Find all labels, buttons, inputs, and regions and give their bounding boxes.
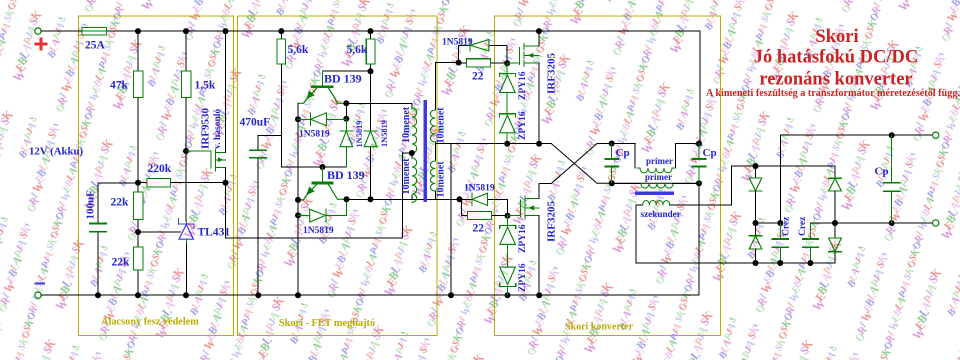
node: lower gate cell input [457, 196, 463, 202]
shunt regulator U2 TL431 [178, 219, 230, 296]
node: diode row upper right [343, 116, 349, 122]
resistor 5,6k (right) [347, 31, 375, 71]
wire: X crossing diag 2 [552, 144, 636, 184]
diode 1N5819 (lower gate) [464, 184, 508, 216]
svg-text:A kimeneti feszültség a transz: A kimeneti feszültség a transzformátor m… [706, 88, 960, 99]
svg-text:10menet: 10menet [435, 107, 446, 144]
capacitor Crez2 [798, 216, 818, 263]
svg-text:5,6k: 5,6k [288, 44, 309, 56]
terminal: output + [933, 132, 939, 138]
svg-text:470uF: 470uF [240, 117, 271, 129]
transistor Q1 IRF9530 (P-MOSFET) [211, 150, 226, 171]
transformer T1 winding W2 (10menet lower left) [401, 153, 417, 202]
svg-text:Jó hatásfokú DC/DC: Jó hatásfokú DC/DC [754, 48, 918, 68]
diode D4 (right bottom) [829, 223, 842, 252]
transformer T1 core [424, 100, 427, 202]
transformer T1 winding W1 (10menet upper left) [401, 103, 417, 153]
svg-text:IRF3205: IRF3205 [546, 201, 558, 242]
terminal: - input [35, 292, 41, 298]
svg-text:IRF3205: IRF3205 [546, 53, 558, 94]
svg-text:Skori: Skori [815, 27, 858, 47]
transformer T2 winding primer (upper) [635, 144, 699, 173]
node: lower emitter [295, 197, 301, 203]
svg-text:12V (Akku): 12V (Akku) [29, 146, 84, 158]
wire: left mid row [756, 222, 781, 224]
box: Alacsony fesz vedelem [79, 16, 234, 336]
svg-text:v. hasonló: v. hasonló [213, 109, 223, 149]
node: upper collector [343, 100, 349, 106]
wire: secondary lower rail [636, 252, 835, 263]
wire: right mid row [810, 222, 932, 224]
resistor 22k (lower) [112, 232, 144, 295]
svg-text:ZPY16: ZPY16 [518, 224, 528, 253]
svg-text:1N5819: 1N5819 [442, 38, 473, 48]
capacitor Cp1 [605, 144, 629, 184]
wire: IRF9530 source down and to FET driver [226, 153, 412, 238]
svg-text:TL431: TL431 [198, 227, 231, 239]
diode D3 (right top) [829, 178, 842, 223]
svg-text:1N5819: 1N5819 [303, 226, 334, 236]
transformer T2 winding szekunder [636, 166, 732, 263]
diode 1N5819 (lower horizontal) [298, 199, 347, 236]
node: Crez1 top [777, 220, 783, 226]
svg-text:10menet: 10menet [401, 158, 412, 195]
node: bottom rail junctions [95, 292, 542, 298]
label: IRF9530 v. hasonlo [200, 108, 224, 149]
svg-text:1N5819: 1N5819 [355, 121, 364, 148]
svg-text:Cp: Cp [616, 147, 630, 159]
node: D2 bottom [753, 260, 759, 266]
svg-text:22: 22 [473, 223, 485, 235]
transistor Q4 IRF3205 (upper) [507, 31, 557, 144]
transformer T1 winding W3 (10menet upper right) [430, 63, 446, 144]
node: Cp1 top [609, 141, 615, 147]
svg-text:47k: 47k [110, 80, 129, 92]
label: - (minus) [36, 283, 45, 285]
resistor 22k (upper) [111, 183, 144, 232]
svg-text:22k: 22k [112, 257, 131, 269]
node: diode row upper left [295, 116, 301, 122]
zener ZPY16 (lower pair top) [500, 216, 528, 253]
zener ZPY16 (upper pair top) [500, 63, 529, 100]
node: base wire of upper BD139 [368, 68, 374, 74]
wire: gate feed IRF9530 [186, 150, 211, 152]
wire: terminal stubs (green) [41, 31, 932, 295]
zener ZPY16 (lower pair bottom) [500, 244, 528, 295]
capacitor Cp2 [693, 144, 717, 184]
svg-text:Alacsony fesz védelem: Alacsony fesz védelem [101, 317, 199, 328]
node: lower base tap [320, 164, 326, 170]
node: upper source on bus [536, 141, 542, 147]
svg-text:primer: primer [645, 172, 672, 182]
svg-text:IRF9530: IRF9530 [200, 108, 212, 149]
wire: TL431 ref [138, 231, 181, 233]
node: source bus junctions [504, 141, 510, 147]
box: Skori - FET meghajto [238, 16, 438, 336]
wire: IRF9530 drain to +12 [225, 31, 227, 152]
resistor 22 (upper gate) [459, 59, 508, 83]
node: collector/diode junction [368, 196, 374, 202]
terminal: + input [35, 28, 41, 34]
diode 1N5819 (upper gate) [442, 38, 507, 64]
svg-text:rezonáns konverter: rezonáns konverter [759, 70, 912, 90]
svg-text:ZPY16: ZPY16 [518, 263, 528, 292]
svg-text:ZPY16: ZPY16 [518, 111, 528, 140]
svg-text:Skori konverter: Skori konverter [565, 322, 634, 333]
node: output cap top [889, 132, 895, 138]
wire: W4 to gate cell [451, 198, 472, 200]
diode 1N5819 (upper horizontal) [298, 113, 346, 140]
resistor 220k [138, 163, 226, 187]
svg-text:10menet: 10menet [435, 161, 446, 198]
node: rect input at D1 [753, 163, 759, 169]
wire: collector to winding W1 top [346, 103, 412, 119]
wire: rectifier input rail [732, 166, 835, 178]
wire: TL431 cathode up to gate node [185, 151, 187, 221]
wire: bottom 0V rail [41, 183, 699, 295]
svg-text:220k: 220k [148, 163, 172, 175]
svg-text:ZPY16: ZPY16 [518, 71, 528, 100]
diode 1N5819 (vertical right) [364, 71, 389, 199]
transistor Q3 BD139 (lower) [299, 167, 365, 200]
svg-text:1,5k: 1,5k [195, 80, 216, 92]
svg-text:Cp: Cp [875, 166, 889, 178]
transformer T1 winding W4 (10menet lower right) [430, 144, 451, 200]
resistor 5,6k (left) [277, 31, 346, 167]
svg-text:100uF: 100uF [85, 190, 97, 220]
svg-text:Crez: Crez [782, 216, 792, 236]
node: left mid row [753, 220, 759, 226]
wire: upper emitter column [297, 103, 299, 295]
node: divider junction / TL431 ref [135, 229, 141, 235]
node: lower diode left [295, 212, 301, 218]
node: lower gate node [505, 213, 511, 219]
svg-text:Crez: Crez [798, 216, 808, 236]
resistor 47k [110, 31, 143, 183]
svg-text:BD 139: BD 139 [324, 72, 362, 86]
node: Cp2 bottom [696, 180, 702, 186]
node: output cap bottom [889, 220, 895, 226]
wire: X crossing diag 1 [552, 144, 700, 184]
wire: W3 top to upper gate cell [435, 62, 458, 64]
capacitor Cp3 (output) [875, 135, 900, 223]
transformer T2 winding primer (lower) [612, 172, 699, 188]
zener ZPY16 (upper pair bottom) [500, 93, 529, 144]
resistor 1,5k [182, 31, 216, 151]
node: +12 / Cp2 top [696, 141, 702, 147]
svg-text:1N5819: 1N5819 [380, 120, 389, 147]
svg-text:10menet: 10menet [401, 106, 412, 143]
terminal: output - [933, 220, 939, 226]
diode D2 (left bottom) [749, 223, 762, 263]
node: 47k/22k/100uF junction [135, 180, 141, 186]
svg-text:szekunder: szekunder [641, 209, 681, 219]
transformer T2 core [635, 191, 674, 195]
diode 1N5819 (vertical left) [340, 119, 364, 167]
capacitor 100uF [85, 183, 139, 295]
transistor Q2 BD139 (upper) [298, 71, 362, 103]
diode D1 (left top) [749, 166, 762, 223]
wire: output + riser [780, 135, 932, 223]
node: T1 center tap [409, 150, 415, 156]
wire: lower collector to winding W2 bottom [347, 198, 436, 200]
node: Crez1 bottom [777, 260, 783, 266]
node: upper gate node [504, 60, 510, 66]
node: source junction [223, 180, 229, 186]
svg-text:22: 22 [472, 71, 484, 83]
capacitor Crez1 [773, 216, 792, 263]
svg-text:25A: 25A [85, 40, 106, 52]
svg-text:BD 139: BD 139 [327, 168, 365, 182]
wire: upper base to 5,6k [323, 70, 371, 72]
svg-text:5,6k: 5,6k [347, 44, 368, 56]
node: upper gate cell input [456, 60, 462, 66]
wire: bus ground drop [450, 144, 452, 296]
svg-text:Skori - FET meghajtó: Skori - FET meghajtó [279, 318, 375, 329]
svg-text:1N5819: 1N5819 [299, 130, 330, 140]
svg-text:1N5819: 1N5819 [464, 184, 495, 194]
fuse 25A [82, 27, 107, 51]
label: + (plus) [36, 39, 46, 49]
node: right mid row at D3 [832, 220, 838, 226]
svg-text:primer: primer [646, 156, 673, 166]
node: Cp1 bottom [609, 180, 615, 186]
resistor 22 (lower gate) [462, 199, 508, 234]
wire: top +12V rail [41, 31, 700, 143]
node: Crez2 bottom [807, 260, 813, 266]
capacitor 470uF [240, 117, 282, 296]
svg-text:Cp: Cp [703, 147, 717, 159]
wire: ground rail of converter (source bus) [435, 143, 551, 145]
node: top rail junctions [135, 28, 542, 34]
node: gate of IRF9530 [183, 148, 189, 154]
node: lower collector [344, 196, 350, 202]
box: Skori konverter [495, 16, 721, 336]
svg-text:22k: 22k [111, 197, 130, 209]
transistor Q5 IRF3205 (lower) [508, 183, 558, 295]
